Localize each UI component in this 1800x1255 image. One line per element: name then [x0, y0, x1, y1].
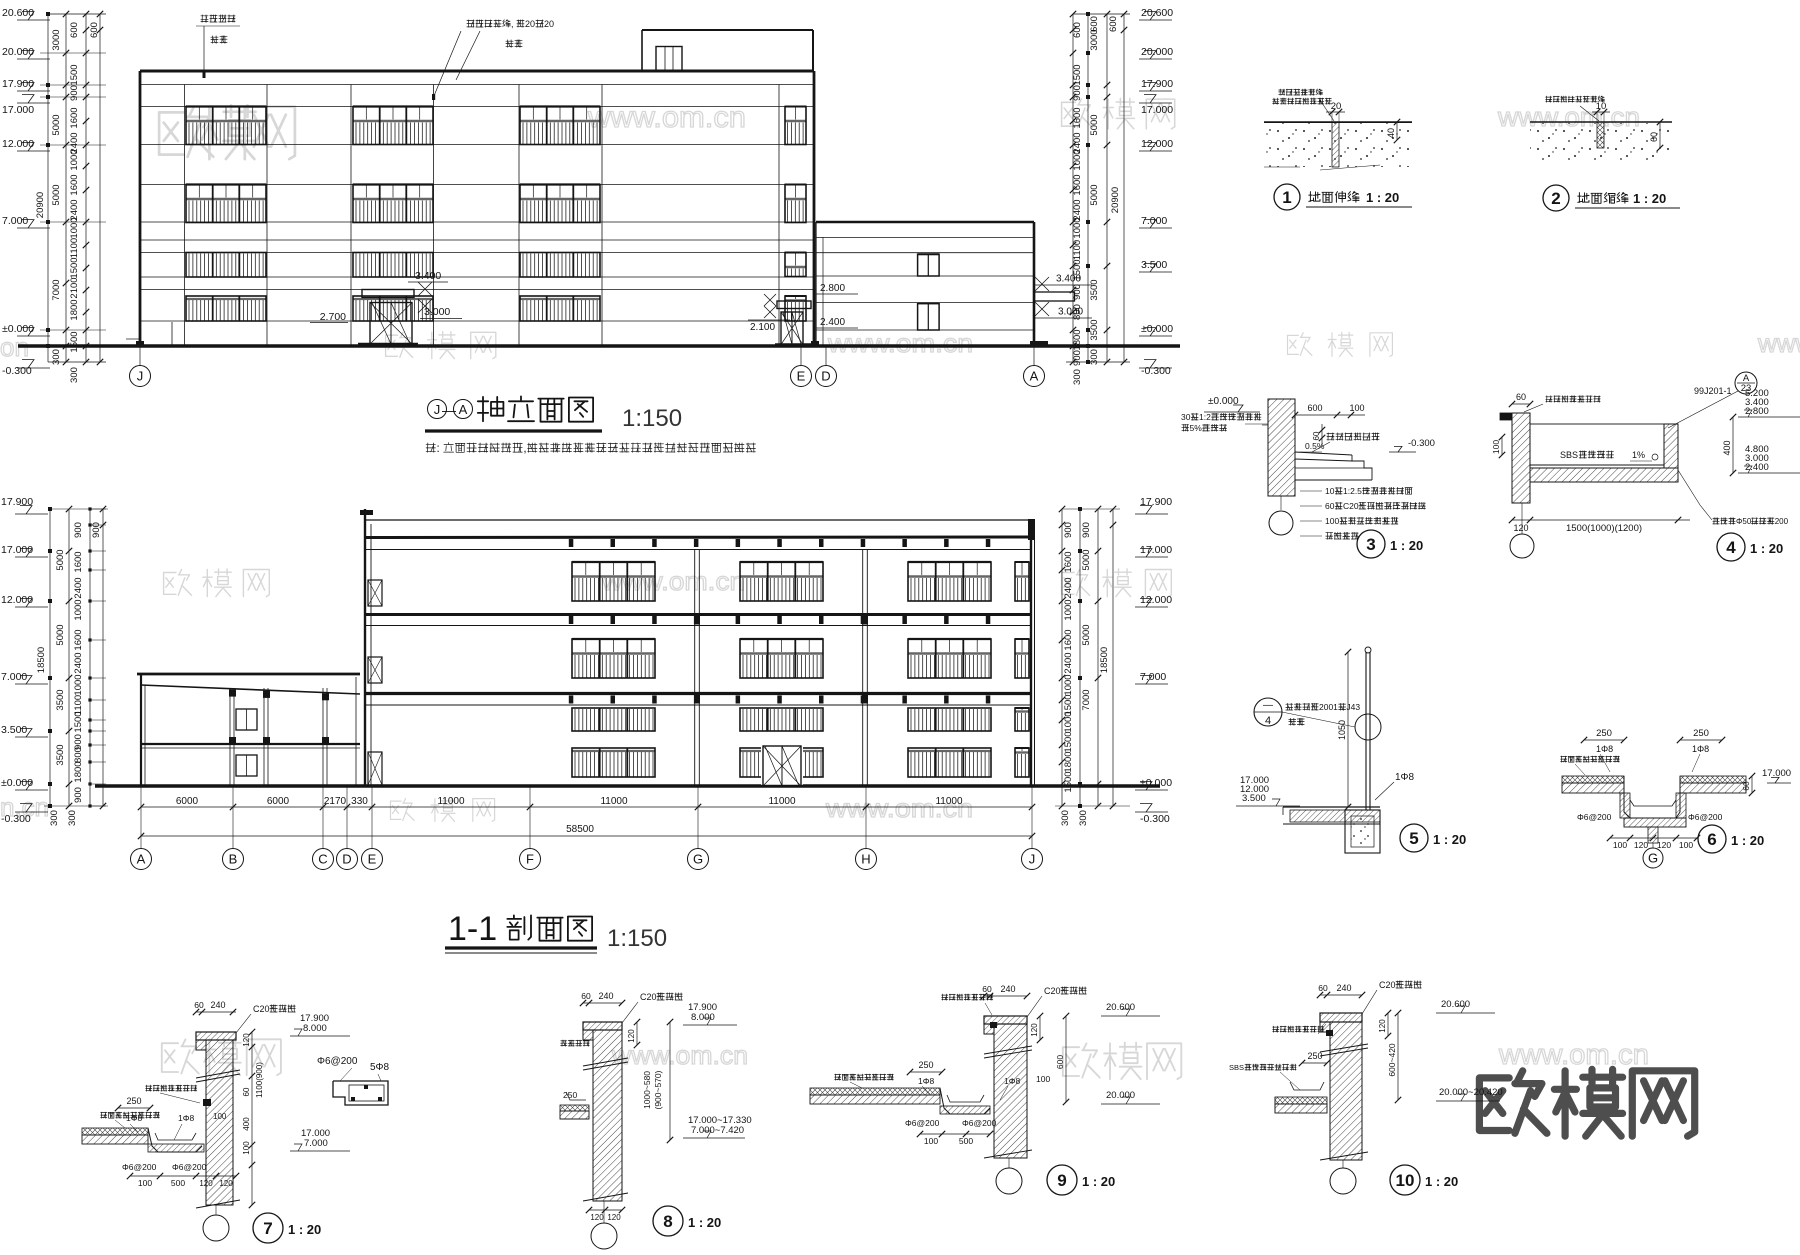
svg-text:1600: 1600 — [1072, 174, 1083, 195]
svg-text:5%: 5% — [1190, 423, 1203, 433]
svg-text:600: 600 — [1307, 403, 1322, 413]
svg-text:D: D — [342, 852, 351, 867]
svg-text:240: 240 — [1336, 983, 1351, 993]
svg-text:12.000: 12.000 — [1140, 594, 1172, 606]
svg-text:1Φ8: 1Φ8 — [918, 1076, 935, 1086]
svg-text:20.600: 20.600 — [1106, 1002, 1135, 1013]
svg-text:1000: 1000 — [73, 674, 84, 695]
svg-text:www.om.cn: www.om.cn — [827, 328, 973, 358]
svg-text:www.om.cn: www.om.cn — [587, 101, 746, 134]
svg-text:20.600: 20.600 — [1441, 999, 1470, 1010]
svg-text:,: , — [511, 19, 514, 29]
svg-text::: : — [437, 443, 440, 455]
svg-text:300: 300 — [51, 349, 62, 365]
svg-text:1800: 1800 — [1072, 329, 1083, 350]
svg-text:C20: C20 — [253, 1004, 270, 1014]
svg-text:240: 240 — [1000, 984, 1015, 994]
svg-text:1 : 20: 1 : 20 — [1390, 538, 1423, 553]
svg-text:17.900: 17.900 — [2, 78, 34, 90]
svg-text:4: 4 — [1265, 715, 1271, 727]
svg-text:1Φ8: 1Φ8 — [178, 1113, 195, 1123]
svg-text:3.500: 3.500 — [1, 724, 27, 736]
svg-text:A: A — [459, 402, 468, 417]
svg-text:60: 60 — [1649, 132, 1659, 142]
svg-text:20900: 20900 — [35, 192, 46, 218]
svg-text:9: 9 — [1057, 1171, 1066, 1190]
svg-text:60: 60 — [1312, 431, 1321, 440]
svg-text:1: 1 — [1282, 188, 1291, 207]
svg-text:100: 100 — [1325, 516, 1339, 526]
svg-text:1 : 20: 1 : 20 — [288, 1222, 321, 1237]
svg-text:100: 100 — [924, 1136, 938, 1146]
svg-text:120: 120 — [627, 1029, 636, 1043]
svg-text:J: J — [137, 369, 144, 384]
svg-text:1600: 1600 — [73, 551, 84, 572]
svg-text:900: 900 — [69, 85, 80, 101]
svg-text:E: E — [797, 369, 806, 384]
svg-text:20.000: 20.000 — [1141, 46, 1173, 58]
svg-text:5000: 5000 — [1081, 624, 1092, 645]
svg-text:1Φ8: 1Φ8 — [1692, 744, 1709, 754]
svg-text:C20: C20 — [1379, 980, 1396, 990]
svg-text:5: 5 — [1409, 829, 1418, 848]
svg-text:12.000: 12.000 — [1141, 138, 1173, 150]
svg-text:F: F — [526, 852, 534, 867]
svg-text:1 : 20: 1 : 20 — [1425, 1174, 1458, 1189]
svg-text:1:2: 1:2 — [1199, 412, 1211, 422]
svg-text:300: 300 — [49, 810, 60, 826]
svg-text:Φ6@200: Φ6@200 — [122, 1162, 157, 1172]
svg-text:±0.000: ±0.000 — [1141, 323, 1173, 335]
svg-text:1%: 1% — [1632, 450, 1645, 460]
svg-text:1100: 1100 — [69, 238, 80, 258]
svg-text:-0.300: -0.300 — [1141, 365, 1171, 377]
svg-text:250: 250 — [918, 1060, 933, 1070]
svg-text:C20: C20 — [1044, 986, 1061, 996]
svg-text:1 : 20: 1 : 20 — [1433, 832, 1466, 847]
svg-text:7.000: 7.000 — [1141, 215, 1167, 227]
svg-text:1500: 1500 — [69, 331, 80, 352]
svg-text:6: 6 — [1707, 830, 1716, 849]
svg-text:1 : 20: 1 : 20 — [1366, 190, 1399, 205]
svg-text:6000: 6000 — [267, 796, 290, 807]
svg-text:250: 250 — [1693, 728, 1709, 739]
svg-text:www.om.cn: www.om.cn — [1498, 1039, 1649, 1071]
svg-text:900: 900 — [1072, 350, 1083, 366]
svg-text:900: 900 — [1072, 85, 1083, 101]
svg-text:120: 120 — [1634, 840, 1648, 850]
svg-text:1600: 1600 — [69, 107, 80, 128]
svg-text:17.900: 17.900 — [1, 496, 33, 508]
svg-text:B: B — [229, 852, 238, 867]
svg-text:600: 600 — [1055, 1055, 1065, 1069]
svg-text:A: A — [1030, 369, 1039, 384]
svg-text:20.000: 20.000 — [2, 46, 34, 58]
svg-text:1000: 1000 — [1063, 711, 1074, 732]
svg-text:60: 60 — [242, 1087, 251, 1096]
svg-text:3: 3 — [1366, 535, 1375, 554]
svg-text:600: 600 — [89, 22, 100, 38]
svg-text:20.600: 20.600 — [1141, 7, 1173, 19]
svg-text:500: 500 — [171, 1178, 185, 1188]
svg-text:1500: 1500 — [69, 64, 80, 85]
svg-text:11000: 11000 — [768, 796, 796, 807]
svg-text:Φ6@200: Φ6@200 — [962, 1118, 997, 1128]
svg-text:100: 100 — [213, 1112, 227, 1121]
svg-text:120: 120 — [199, 1179, 213, 1188]
svg-text:2.100: 2.100 — [750, 322, 775, 333]
svg-text:±0.000: ±0.000 — [1, 777, 33, 789]
svg-text:1000: 1000 — [1063, 674, 1074, 695]
svg-text:—: — — [1263, 700, 1273, 711]
svg-text:3000: 3000 — [51, 29, 62, 50]
svg-text:11000: 11000 — [437, 796, 465, 807]
svg-text:3500: 3500 — [1089, 319, 1100, 340]
svg-text:120: 120 — [590, 1213, 604, 1222]
svg-text:120: 120 — [219, 1179, 233, 1188]
svg-text:1Φ8: 1Φ8 — [1596, 744, 1613, 754]
svg-text:300: 300 — [69, 367, 80, 383]
svg-text:C20: C20 — [1343, 501, 1359, 511]
svg-text:120: 120 — [607, 1213, 621, 1222]
svg-text:600~420: 600~420 — [1387, 1043, 1397, 1077]
svg-text:17.000: 17.000 — [2, 104, 34, 116]
svg-text:250: 250 — [563, 1090, 577, 1100]
svg-text:3.400: 3.400 — [415, 270, 441, 282]
svg-text:60: 60 — [194, 1000, 204, 1010]
svg-text:www.om.cn: www.om.cn — [611, 1040, 748, 1070]
svg-text:1100(900): 1100(900) — [255, 1062, 264, 1098]
svg-text:100: 100 — [1349, 403, 1364, 413]
svg-text:7: 7 — [263, 1219, 272, 1238]
svg-text:99J201-1: 99J201-1 — [1694, 386, 1732, 396]
svg-text:1 : 20: 1 : 20 — [1750, 541, 1783, 556]
svg-text:300: 300 — [1060, 810, 1071, 826]
svg-text:1500: 1500 — [1063, 731, 1074, 752]
svg-text:200: 200 — [1775, 517, 1789, 526]
svg-text:J: J — [1029, 852, 1036, 867]
svg-text:1:150: 1:150 — [622, 405, 682, 432]
svg-text:E: E — [368, 852, 377, 867]
svg-text:C: C — [318, 852, 327, 867]
svg-text:300: 300 — [1078, 810, 1089, 826]
svg-text:30: 30 — [1181, 412, 1191, 422]
svg-text:10: 10 — [1596, 101, 1607, 112]
svg-text:800: 800 — [1072, 304, 1083, 320]
svg-text:H: H — [861, 852, 870, 867]
svg-text:2.700: 2.700 — [320, 311, 346, 323]
svg-text:120: 120 — [242, 1033, 251, 1047]
svg-text:1000: 1000 — [73, 599, 84, 620]
svg-text:7.000: 7.000 — [1, 671, 27, 683]
svg-text:20900: 20900 — [1110, 187, 1121, 213]
svg-text:250: 250 — [1596, 728, 1612, 739]
svg-text:5Φ8: 5Φ8 — [370, 1062, 390, 1073]
svg-text:1 : 20: 1 : 20 — [1731, 833, 1764, 848]
svg-text:1:2.5: 1:2.5 — [1343, 486, 1362, 496]
svg-text:1 : 20: 1 : 20 — [1633, 191, 1666, 206]
svg-text:20: 20 — [544, 19, 554, 29]
svg-text:1500: 1500 — [73, 711, 84, 732]
svg-text:18500: 18500 — [1099, 647, 1110, 673]
svg-text:100: 100 — [1036, 1074, 1050, 1084]
svg-text:3.500: 3.500 — [1141, 259, 1167, 271]
svg-text:1600: 1600 — [1072, 107, 1083, 128]
svg-text:2400: 2400 — [73, 577, 84, 598]
svg-text:2.400: 2.400 — [820, 317, 845, 328]
svg-text:17.000: 17.000 — [1140, 544, 1172, 556]
svg-text:120: 120 — [1513, 523, 1528, 533]
svg-text:500: 500 — [959, 1136, 973, 1146]
svg-text:120: 120 — [1030, 1023, 1039, 1037]
svg-text:900: 900 — [1081, 522, 1092, 538]
svg-text:1100: 1100 — [1072, 240, 1083, 260]
svg-text:900: 900 — [1072, 284, 1083, 300]
svg-text:12.000: 12.000 — [1, 594, 33, 606]
svg-text:20.000: 20.000 — [1106, 1090, 1135, 1101]
svg-text:2400: 2400 — [1063, 652, 1074, 673]
svg-text:www: www — [1757, 328, 1800, 358]
svg-text:J43: J43 — [1346, 702, 1360, 712]
svg-text:100: 100 — [1491, 440, 1501, 454]
svg-text:2001: 2001 — [1319, 702, 1338, 712]
svg-text:Φ6@200: Φ6@200 — [1688, 812, 1723, 822]
svg-text:17.900: 17.900 — [1140, 496, 1172, 508]
svg-text:7.000: 7.000 — [2, 215, 28, 227]
svg-text:120: 120 — [1378, 1019, 1387, 1033]
svg-text:-0.300: -0.300 — [2, 365, 32, 377]
svg-text:250: 250 — [1307, 1051, 1322, 1061]
svg-text:900: 900 — [73, 787, 84, 803]
svg-text:11000: 11000 — [935, 796, 963, 807]
svg-text:8.000: 8.000 — [691, 1012, 715, 1023]
svg-text:600: 600 — [1072, 22, 1083, 38]
svg-text:7.000~7.420: 7.000~7.420 — [691, 1125, 744, 1136]
svg-text:D: D — [821, 369, 830, 384]
svg-text:2.800: 2.800 — [820, 283, 845, 294]
svg-text:2400: 2400 — [73, 652, 84, 673]
svg-text:1 : 20: 1 : 20 — [688, 1215, 721, 1230]
svg-text:www.om.cn: www.om.cn — [601, 566, 745, 596]
svg-text:1000: 1000 — [1072, 217, 1083, 238]
svg-text:1000~580: 1000~580 — [642, 1071, 652, 1109]
svg-text:5000: 5000 — [55, 549, 66, 570]
svg-text:1600: 1600 — [1063, 629, 1074, 650]
svg-text:6000: 6000 — [176, 796, 199, 807]
svg-text:5000: 5000 — [1089, 114, 1100, 135]
svg-text:2100: 2100 — [69, 277, 80, 298]
svg-text:60: 60 — [581, 991, 591, 1001]
svg-text:20: 20 — [525, 19, 535, 29]
svg-text:240: 240 — [210, 1000, 225, 1010]
svg-text:1Φ8: 1Φ8 — [1004, 1076, 1021, 1086]
svg-text:17.000: 17.000 — [1762, 768, 1791, 779]
svg-text:58500: 58500 — [566, 824, 594, 835]
svg-text:3500: 3500 — [55, 689, 66, 710]
svg-text:60: 60 — [1318, 983, 1328, 993]
svg-text:10: 10 — [1396, 1171, 1415, 1190]
svg-text:1050: 1050 — [1337, 720, 1347, 740]
svg-text:240: 240 — [598, 991, 613, 1001]
svg-text:5000: 5000 — [1089, 184, 1100, 205]
svg-text:7000: 7000 — [51, 279, 62, 300]
svg-text:1500: 1500 — [69, 257, 80, 278]
svg-text:5000: 5000 — [51, 184, 62, 205]
svg-text:5000: 5000 — [1081, 549, 1092, 570]
svg-text:60: 60 — [1516, 392, 1526, 402]
svg-text:120: 120 — [1657, 840, 1671, 850]
svg-text:100: 100 — [138, 1178, 152, 1188]
svg-text:7.000: 7.000 — [304, 1138, 328, 1149]
svg-text:800: 800 — [73, 747, 84, 763]
svg-text:17.000: 17.000 — [1141, 104, 1173, 116]
svg-text:2: 2 — [1551, 189, 1560, 208]
svg-text:100: 100 — [1679, 840, 1693, 850]
svg-text:±0.000: ±0.000 — [1140, 777, 1172, 789]
svg-text:Φ6@200: Φ6@200 — [905, 1118, 940, 1128]
svg-text:600: 600 — [1089, 16, 1100, 32]
svg-text:900: 900 — [1063, 522, 1074, 538]
svg-text:(900~570): (900~570) — [653, 1070, 663, 1109]
svg-text:7000: 7000 — [1081, 689, 1092, 710]
svg-text:Φ6@200: Φ6@200 — [172, 1162, 207, 1172]
svg-text:-0.300: -0.300 — [1, 813, 31, 825]
svg-text:1:150: 1:150 — [607, 925, 667, 952]
svg-text:1800: 1800 — [1063, 751, 1074, 772]
svg-text:250: 250 — [126, 1096, 141, 1106]
svg-text:300: 300 — [1089, 349, 1100, 365]
svg-text:1600: 1600 — [73, 629, 84, 650]
svg-text:10: 10 — [1325, 486, 1335, 496]
svg-text:600: 600 — [1108, 16, 1119, 32]
svg-text:17.900: 17.900 — [1141, 78, 1173, 90]
svg-text:7.000: 7.000 — [1140, 671, 1166, 683]
svg-text:2400: 2400 — [1072, 199, 1083, 220]
svg-text:900: 900 — [73, 522, 84, 538]
svg-text:1500: 1500 — [1063, 771, 1074, 792]
svg-text:G: G — [693, 852, 703, 867]
svg-text:-0.300: -0.300 — [1140, 813, 1170, 825]
svg-text:3.000: 3.000 — [424, 306, 450, 318]
svg-text:60: 60 — [982, 984, 992, 994]
svg-text:3500: 3500 — [55, 744, 66, 765]
svg-text:±0.000: ±0.000 — [2, 323, 34, 335]
svg-text:18500: 18500 — [36, 647, 47, 673]
svg-text:300: 300 — [1072, 369, 1083, 385]
svg-text:60: 60 — [1325, 501, 1335, 511]
svg-text:5000: 5000 — [55, 624, 66, 645]
svg-text:4: 4 — [1726, 538, 1736, 557]
svg-text:1000: 1000 — [1063, 599, 1074, 620]
svg-text:1000: 1000 — [1072, 149, 1083, 170]
svg-text:17.000: 17.000 — [1, 544, 33, 556]
svg-text:12.000: 12.000 — [2, 138, 34, 150]
svg-text:5000: 5000 — [51, 114, 62, 135]
svg-text:-0.300: -0.300 — [1408, 438, 1435, 449]
svg-text:330: 330 — [351, 796, 368, 807]
svg-text:2170: 2170 — [324, 796, 347, 807]
svg-text:400: 400 — [242, 1117, 251, 1131]
svg-text:900: 900 — [91, 522, 102, 538]
svg-text:1600: 1600 — [1063, 551, 1074, 572]
svg-text:20.600: 20.600 — [2, 7, 34, 19]
svg-text:11000: 11000 — [600, 796, 628, 807]
svg-text:1800: 1800 — [73, 761, 84, 782]
svg-text:8.000: 8.000 — [303, 1023, 327, 1034]
svg-text:J: J — [434, 402, 441, 417]
svg-text:A: A — [137, 852, 146, 867]
svg-text:3500: 3500 — [1089, 279, 1100, 300]
svg-text:SBS: SBS — [1560, 450, 1578, 460]
svg-text:1500: 1500 — [1072, 64, 1083, 85]
svg-text:1Φ8: 1Φ8 — [126, 1113, 143, 1123]
svg-text:100: 100 — [1613, 840, 1627, 850]
svg-text:1000: 1000 — [69, 149, 80, 170]
svg-text:C20: C20 — [640, 992, 657, 1002]
svg-text:8: 8 — [663, 1212, 672, 1231]
svg-text:SBS: SBS — [1229, 1063, 1244, 1072]
svg-text:1600: 1600 — [69, 174, 80, 195]
svg-text:Φ6@200: Φ6@200 — [1577, 812, 1612, 822]
svg-text:400: 400 — [1722, 440, 1732, 455]
svg-text:1Φ8: 1Φ8 — [1395, 772, 1415, 783]
svg-text:1000: 1000 — [69, 217, 80, 238]
svg-text:20.000~20.420: 20.000~20.420 — [1439, 1087, 1503, 1098]
svg-text:100: 100 — [242, 1141, 251, 1155]
svg-text:20: 20 — [1331, 101, 1342, 112]
svg-text:1800: 1800 — [69, 299, 80, 320]
svg-text:,: , — [523, 443, 526, 455]
svg-text:60: 60 — [1741, 781, 1751, 791]
svg-text:1-1: 1-1 — [448, 910, 497, 948]
svg-text:Φ50: Φ50 — [1736, 517, 1752, 526]
svg-text:40: 40 — [1386, 128, 1396, 138]
svg-text:600: 600 — [69, 22, 80, 38]
svg-text:1500: 1500 — [1072, 259, 1083, 280]
svg-text:1500(1000)(1200): 1500(1000)(1200) — [1566, 523, 1642, 534]
svg-text:G: G — [1648, 851, 1658, 866]
svg-text:3.500: 3.500 — [1242, 793, 1266, 804]
svg-text:2400: 2400 — [69, 199, 80, 220]
svg-text:300: 300 — [67, 810, 78, 826]
svg-text:1 : 20: 1 : 20 — [1082, 1174, 1115, 1189]
svg-text:2400: 2400 — [1063, 577, 1074, 598]
svg-text:Φ6@200: Φ6@200 — [317, 1056, 358, 1067]
